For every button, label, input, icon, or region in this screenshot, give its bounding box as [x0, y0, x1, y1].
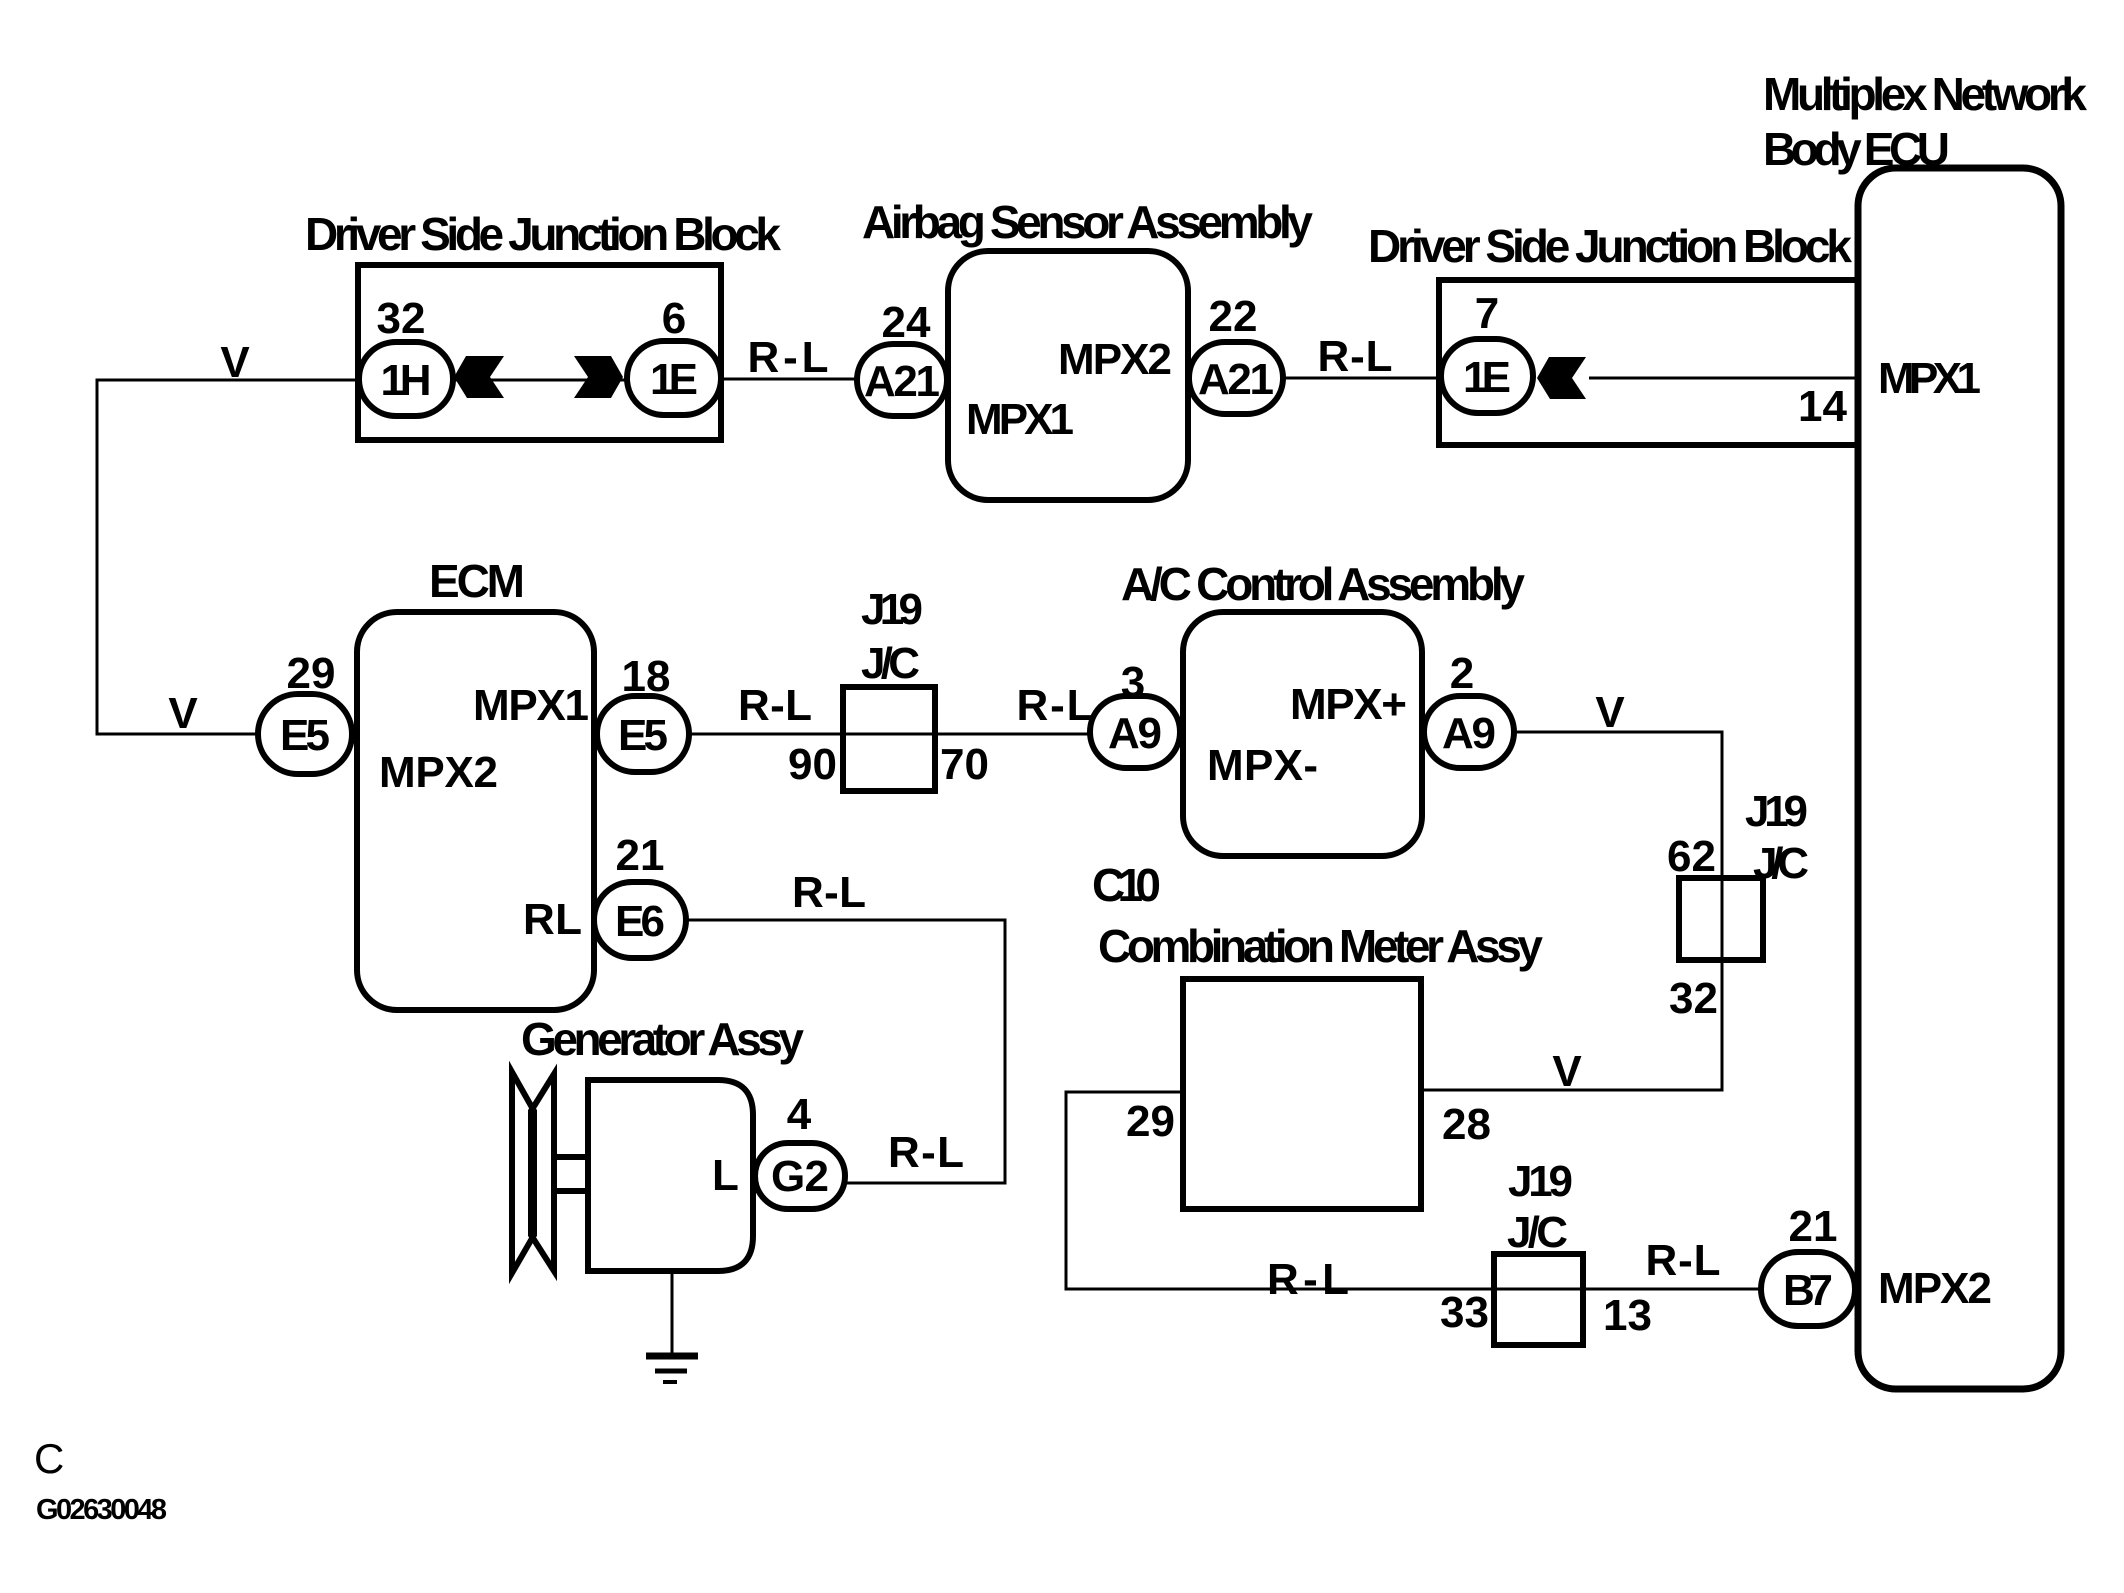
- component: Combination Meter Assy box: [1183, 979, 1421, 1209]
- connector A9 pin3: [1090, 696, 1180, 768]
- svg-text:7: 7: [1475, 289, 1499, 338]
- connector A21 pin24: [857, 344, 947, 416]
- svg-text:A9: A9: [1108, 709, 1162, 758]
- svg-text:J19: J19: [1508, 1157, 1573, 1206]
- svg-text:90: 90: [788, 740, 837, 789]
- svg-text:R-L: R-L: [1318, 332, 1393, 381]
- svg-text:MPX1: MPX1: [1878, 354, 1981, 403]
- connector 1E (right block): [1441, 339, 1533, 413]
- svg-text:Driver Side Junction Block: Driver Side Junction Block: [305, 208, 781, 260]
- svg-text:MPX2: MPX2: [1058, 335, 1172, 384]
- svg-text:V: V: [1595, 688, 1625, 737]
- generator pulley left flange: [512, 1072, 534, 1273]
- connector A9 pin2: [1424, 696, 1514, 768]
- wire R-L: airbag A21 pin22 to DSJB2 1E pin7: [1284, 377, 1443, 380]
- svg-text:Driver Side Junction Block: Driver Side Junction Block: [1368, 220, 1852, 272]
- svg-text:RL: RL: [523, 895, 582, 944]
- connector G2 pin4: [755, 1143, 845, 1209]
- component: Generator Assy box: [588, 1080, 753, 1271]
- svg-text:Combination Meter Assy: Combination Meter Assy: [1098, 920, 1543, 972]
- svg-text:A21: A21: [1198, 355, 1274, 404]
- svg-text:MPX-: MPX-: [1207, 741, 1318, 790]
- component: Driver Side Junction Block (left): [358, 265, 721, 440]
- svg-text:G02630048: G02630048: [36, 1494, 167, 1526]
- svg-text:Generator Assy: Generator Assy: [521, 1013, 804, 1065]
- svg-text:ECM: ECM: [429, 555, 525, 607]
- connector 1E (left block): [627, 341, 721, 415]
- svg-text:R-L: R-L: [748, 333, 829, 382]
- svg-text:21: 21: [616, 831, 665, 880]
- svg-text:R-L: R-L: [738, 681, 812, 730]
- svg-text:B7: B7: [1783, 1266, 1833, 1315]
- svg-text:24: 24: [882, 298, 931, 347]
- connector E6 pin21: [594, 882, 686, 958]
- wire R-L: 1E pin6 to airbag A21 pin24: [721, 378, 857, 381]
- svg-text:14: 14: [1798, 382, 1847, 431]
- svg-text:MPX1: MPX1: [473, 681, 589, 730]
- svg-text:1E: 1E: [1463, 353, 1511, 402]
- ground (generator): [646, 1271, 698, 1382]
- component: Multiplex Network Body ECU box: [1858, 168, 2061, 1389]
- svg-text:32: 32: [1669, 974, 1718, 1023]
- svg-text:J/C: J/C: [1753, 839, 1809, 888]
- svg-text:1E: 1E: [650, 355, 698, 404]
- svg-text:E5: E5: [618, 711, 668, 760]
- svg-text:R-L: R-L: [1267, 1255, 1349, 1304]
- svg-text:V: V: [168, 689, 198, 738]
- svg-text:E6: E6: [615, 897, 665, 946]
- svg-text:Airbag Sensor Assembly: Airbag Sensor Assembly: [862, 196, 1313, 248]
- svg-text:Multiplex Network: Multiplex Network: [1763, 68, 2087, 120]
- svg-text:29: 29: [287, 649, 336, 698]
- arrow right (into 1E): [574, 356, 623, 398]
- svg-text:32: 32: [377, 294, 426, 343]
- generator pulley right flange: [531, 1074, 554, 1271]
- svg-text:6: 6: [662, 294, 686, 343]
- svg-text:4: 4: [787, 1090, 812, 1139]
- svg-text:62: 62: [1667, 832, 1716, 881]
- pulley shaft links: [553, 1157, 588, 1191]
- svg-text:J/C: J/C: [1507, 1208, 1568, 1257]
- svg-text:2: 2: [1450, 649, 1474, 698]
- wire inside DSJB1 between 1H and 1E: [453, 379, 627, 382]
- arrow left (into 1E right block): [1537, 357, 1586, 399]
- svg-text:C: C: [34, 1435, 64, 1482]
- svg-text:R-L: R-L: [888, 1128, 964, 1177]
- svg-text:MPX+: MPX+: [1290, 680, 1407, 729]
- component: Airbag Sensor Assembly box: [948, 251, 1188, 500]
- svg-text:21: 21: [1789, 1202, 1838, 1251]
- arrow left (into 1H): [454, 356, 504, 398]
- svg-text:L: L: [712, 1151, 739, 1200]
- svg-text:A9: A9: [1442, 709, 1496, 758]
- svg-text:MPX2: MPX2: [1878, 1264, 1992, 1313]
- svg-text:MPX2: MPX2: [379, 748, 498, 797]
- svg-text:J19: J19: [861, 585, 923, 634]
- svg-text:J19: J19: [1745, 787, 1808, 836]
- wire V: A/C A9 pin2 down through J19 J/C 62/32 to meter pin28: [1421, 732, 1722, 1090]
- svg-text:29: 29: [1126, 1097, 1175, 1146]
- svg-text:R-L: R-L: [1646, 1236, 1721, 1285]
- wire R-L: ECM E5 pin18 through J19 J/C to A/C A9 pin3: [689, 733, 1090, 736]
- svg-text:MPX1: MPX1: [966, 395, 1074, 444]
- connector E5 pin18: [597, 696, 689, 772]
- connector A21 pin22: [1189, 342, 1283, 414]
- svg-text:G2: G2: [771, 1152, 829, 1201]
- junction connector J19 J/C (row2): [843, 687, 935, 791]
- wire R-L: ECM E6 pin21 down to generator G2 pin4: [686, 920, 1005, 1183]
- wire R-L: meter pin29 down through J19 J/C 33/13 to ECU B7 pin21: [1066, 1092, 1761, 1289]
- svg-text:22: 22: [1209, 292, 1258, 341]
- svg-text:A21: A21: [864, 357, 940, 406]
- svg-text:70: 70: [940, 740, 989, 789]
- svg-text:13: 13: [1603, 1291, 1652, 1340]
- connector 1H: [359, 342, 453, 416]
- svg-text:C10: C10: [1092, 859, 1161, 911]
- svg-text:E5: E5: [280, 711, 330, 760]
- wire V: junction block 1H pin32 left around to ECM E5 pin29: [97, 380, 359, 734]
- component: A/C Control Assembly box: [1183, 612, 1422, 856]
- svg-text:R-L: R-L: [1017, 681, 1094, 730]
- connector E5 pin29: [258, 694, 352, 774]
- component: Driver Side Junction Block (right): [1439, 280, 1858, 445]
- svg-text:A/C Control Assembly: A/C Control Assembly: [1121, 558, 1525, 610]
- svg-text:33: 33: [1440, 1288, 1489, 1337]
- junction connector J19 J/C (62/32): [1679, 878, 1763, 960]
- svg-text:1H: 1H: [381, 356, 432, 405]
- wire MPX1 pin14: DSJB2 arrow to body ECU: [1589, 377, 1858, 380]
- svg-text:28: 28: [1442, 1100, 1491, 1149]
- svg-text:J/C: J/C: [861, 639, 920, 688]
- svg-text:R-L: R-L: [792, 868, 866, 917]
- svg-text:V: V: [1552, 1047, 1582, 1096]
- svg-text:V: V: [220, 338, 250, 387]
- component: ECM box: [357, 612, 594, 1010]
- connector B7 pin21: [1761, 1252, 1855, 1326]
- junction connector J19 J/C (33/13): [1494, 1254, 1583, 1345]
